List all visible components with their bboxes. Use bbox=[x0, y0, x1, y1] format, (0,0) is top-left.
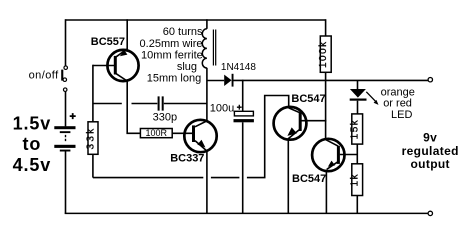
wire feedback 33k to BC547 collector (hops over two wires) bbox=[93, 95, 290, 179]
wire BC557 base bbox=[93, 65, 115, 67]
svg-text:100u: 100u bbox=[210, 103, 234, 115]
wire top rail to 100k bbox=[325, 19, 327, 36]
inductor L1 core bbox=[213, 30, 215, 66]
wire BC547 Q3 emitter lead bbox=[287, 140, 289, 214]
svg-text:33k: 33k bbox=[85, 126, 96, 149]
wire 100R to BC337 base bbox=[172, 132, 192, 134]
svg-text:or red: or red bbox=[383, 97, 412, 109]
wire 330p to BC337 collector column bbox=[164, 103, 207, 105]
label coil spec bbox=[140, 26, 203, 84]
capacitor C2 100u electrolytic bbox=[234, 105, 254, 122]
svg-text:to: to bbox=[23, 134, 42, 154]
svg-text:output: output bbox=[410, 157, 449, 171]
wire 1k bottom lead bbox=[356, 196, 358, 214]
wire 100u bottom lead bbox=[242, 122, 244, 213]
svg-text:9v: 9v bbox=[423, 131, 437, 145]
wire BC557 emitter lead bbox=[126, 19, 128, 51]
svg-text:LED: LED bbox=[391, 109, 412, 121]
node output negative terminal bbox=[428, 211, 432, 215]
svg-text:330p: 330p bbox=[153, 111, 177, 123]
wire BC547 Q4 base to divider bbox=[340, 154, 358, 156]
svg-text:15mm long: 15mm long bbox=[147, 72, 201, 84]
inductor L1 winding bbox=[202, 19, 207, 68]
wire BC547 Q3 base bbox=[302, 120, 327, 122]
transistor Q2 BC337 bbox=[184, 120, 216, 152]
svg-text:1k: 1k bbox=[349, 173, 360, 187]
wire 100k bottom through rail to BC547 Q4 collector bbox=[325, 72, 327, 139]
svg-text:BC557: BC557 bbox=[91, 36, 125, 48]
wire switch to battery bbox=[65, 92, 67, 127]
wire BC337 emitter lead bbox=[206, 151, 208, 213]
wire top rail bbox=[66, 19, 326, 21]
wire battery to bottom rail bbox=[65, 152, 67, 214]
transistor Q1 BC557 bbox=[107, 49, 138, 81]
resistor R4 15k bbox=[349, 114, 362, 144]
resistor R5 1k bbox=[349, 164, 362, 196]
svg-text:on/off: on/off bbox=[29, 70, 60, 82]
svg-text:1N4148: 1N4148 bbox=[221, 62, 256, 73]
svg-text:1.5v: 1.5v bbox=[13, 113, 52, 133]
wire bottom rail bbox=[65, 212, 428, 214]
wire BC547 Q4 emitter lead bbox=[325, 170, 327, 214]
diode D1 1N4148 bbox=[224, 74, 233, 87]
LED D2 bbox=[350, 81, 379, 115]
svg-text:10mm ferrite: 10mm ferrite bbox=[141, 50, 203, 62]
wire BC557 base down to 33k bbox=[92, 65, 94, 122]
svg-text:60 turns: 60 turns bbox=[163, 26, 203, 38]
wire coil bottom to BC337 collector bbox=[206, 68, 208, 121]
svg-text:BC337: BC337 bbox=[170, 153, 204, 165]
label 9v regulated output bbox=[402, 131, 459, 171]
wire 33k bottom lead bbox=[92, 154, 94, 177]
svg-text:0.25mm wire: 0.25mm wire bbox=[140, 38, 203, 50]
transistor Q4 BC547 bbox=[312, 139, 344, 171]
wire 100u top lead bbox=[242, 80, 244, 112]
svg-text:BC547: BC547 bbox=[291, 93, 325, 105]
wire 15k to 1k bbox=[356, 144, 358, 164]
capacitor C1 330p bbox=[159, 96, 163, 110]
svg-text:100k: 100k bbox=[318, 40, 329, 68]
wire BC557 collector to 100R bbox=[127, 81, 140, 134]
wire rail to diode bbox=[207, 80, 224, 82]
resistor R3 100k bbox=[318, 36, 331, 72]
resistor R2 100R bbox=[140, 128, 172, 138]
battery B1 bbox=[54, 113, 75, 151]
svg-text:BC547: BC547 bbox=[292, 173, 326, 185]
wire left rail upper bbox=[65, 19, 67, 66]
svg-text:slug: slug bbox=[177, 61, 197, 73]
svg-text:100R: 100R bbox=[146, 128, 168, 138]
switch S1 on/off bbox=[61, 66, 67, 92]
resistor R1 33k bbox=[85, 122, 98, 155]
label orange or red LED bbox=[381, 86, 415, 121]
svg-text:regulated: regulated bbox=[402, 144, 459, 158]
transistor Q3 BC547 bbox=[274, 107, 307, 140]
wire output rail bbox=[234, 79, 429, 81]
node output positive terminal bbox=[428, 78, 432, 82]
svg-text:4.5v: 4.5v bbox=[13, 155, 52, 175]
wire base node to 330p (hops over collector) bbox=[93, 103, 157, 105]
svg-text:15k: 15k bbox=[349, 119, 360, 140]
